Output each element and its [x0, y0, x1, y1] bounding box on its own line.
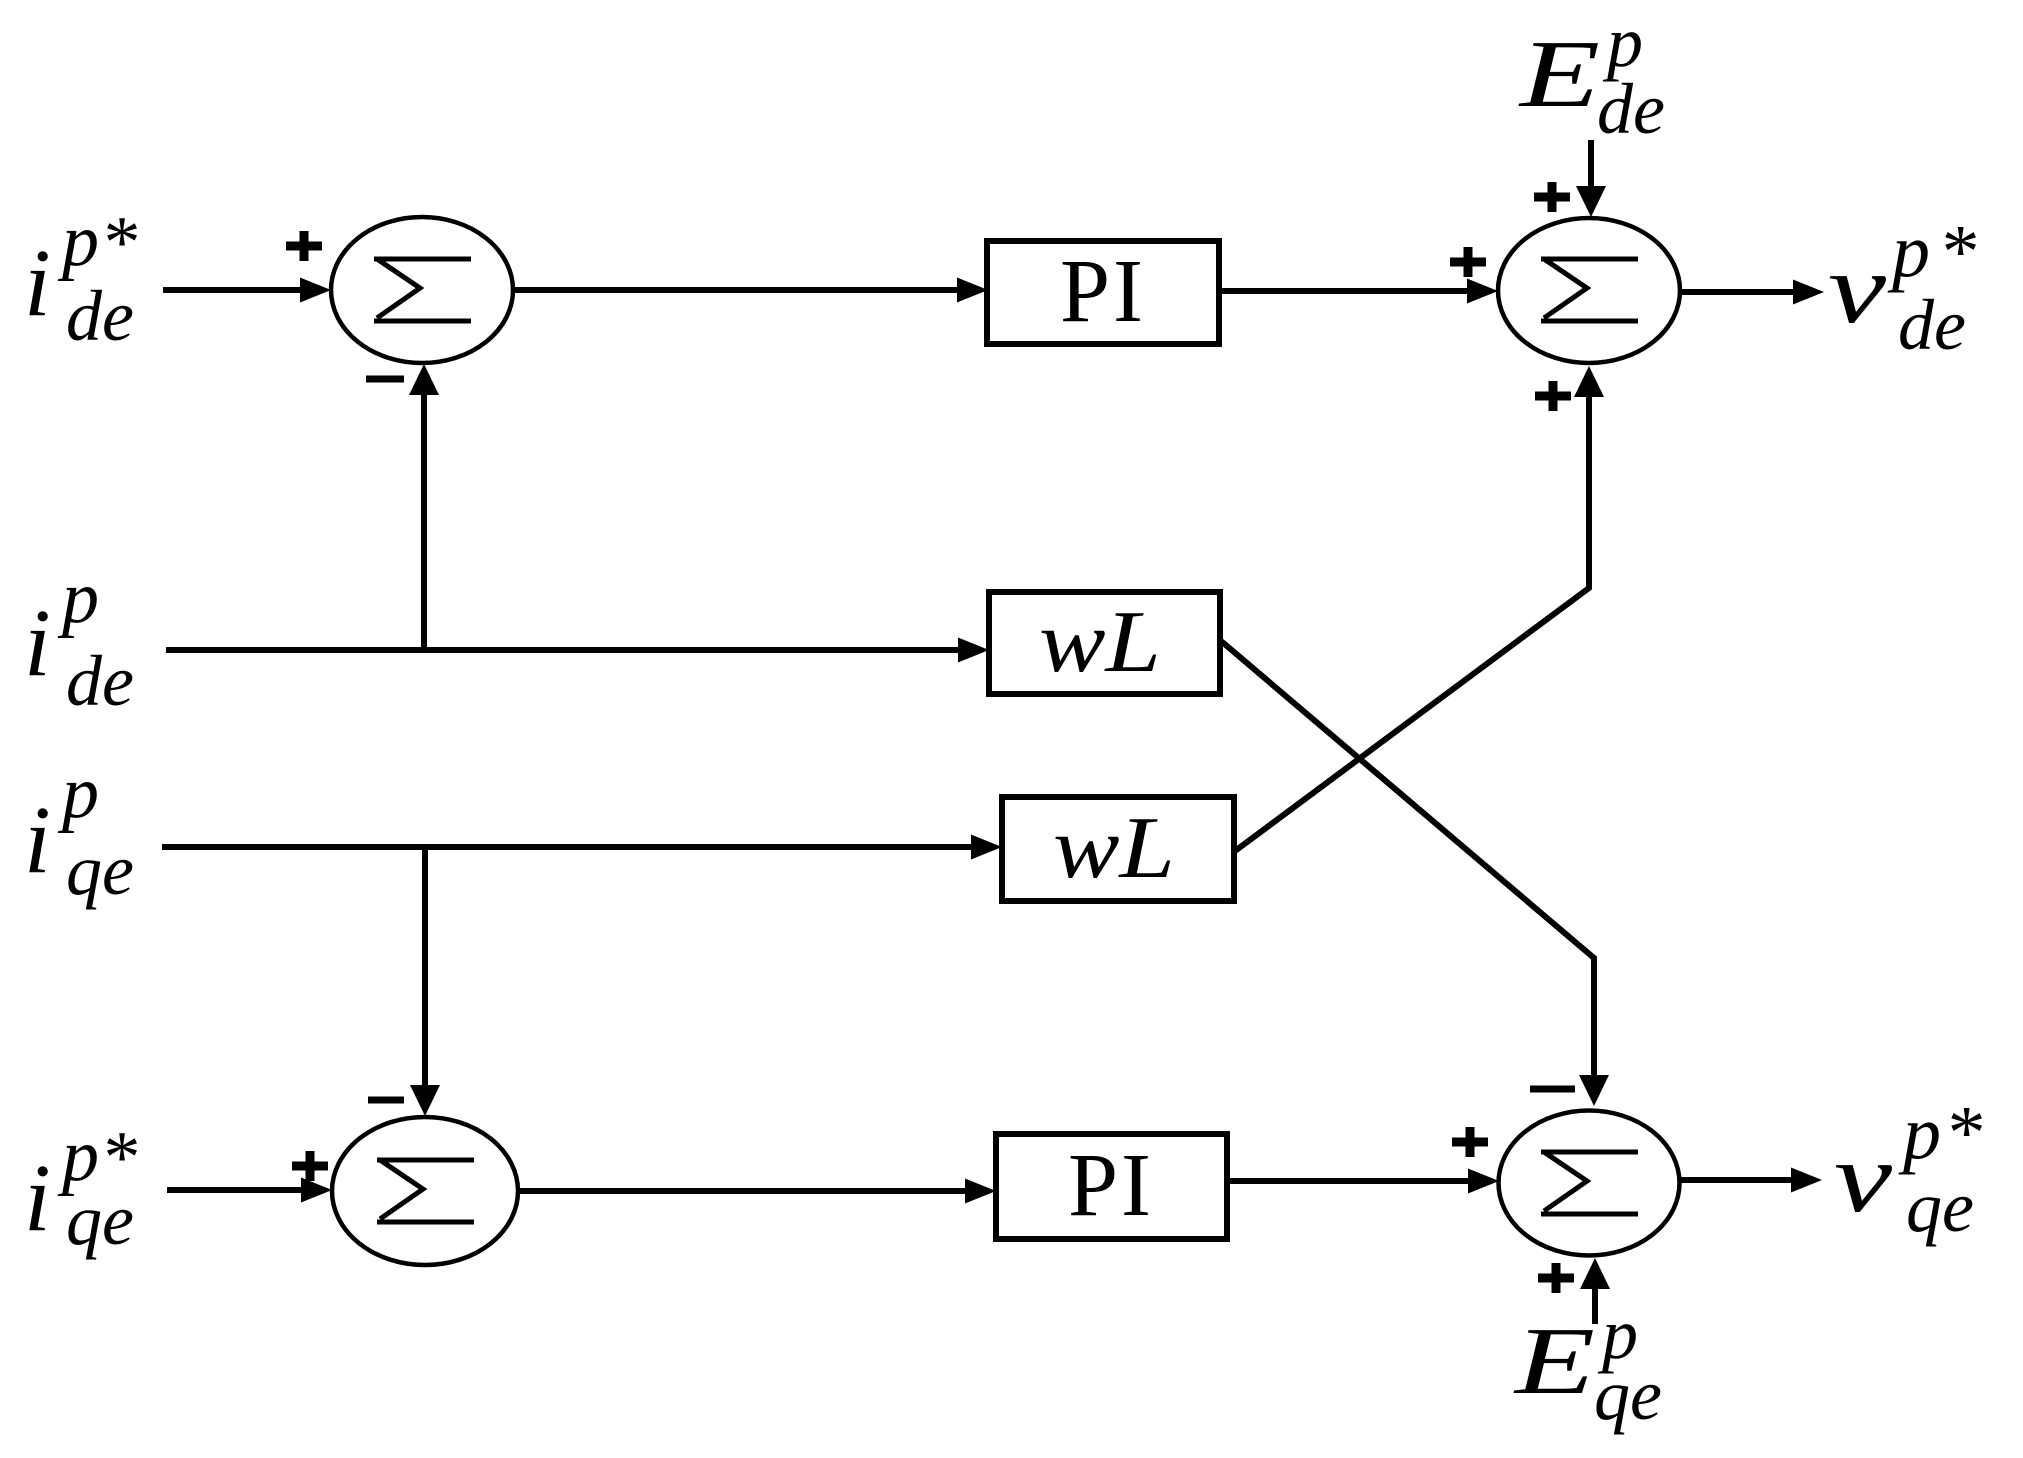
- wire diagonal wL2 to S2 (cross-coupling): [1235, 397, 1589, 851]
- svg-text:v: v: [1828, 233, 1887, 344]
- svg-text:*: *: [100, 202, 137, 284]
- svg-text:p: p: [1887, 209, 1930, 293]
- label i_de (measured d-axis current): [24, 557, 134, 721]
- svg-text:qe: qe: [1594, 1355, 1662, 1435]
- arrowhead into wL2: [971, 835, 1002, 860]
- arrowhead into PI2: [965, 1179, 996, 1204]
- svg-text:E: E: [1512, 1307, 1595, 1414]
- wire row1 input: [163, 287, 301, 293]
- wire diagonal wL1 to S4 (cross-coupling): [1221, 641, 1594, 1075]
- svg-text:*: *: [1944, 1091, 1982, 1175]
- arrowhead E_qe into S4 bottom: [1580, 1258, 1610, 1289]
- arrowhead into S3 top: [410, 1085, 440, 1116]
- gain block wL1: [989, 592, 1220, 694]
- label i_de* (input reference d-axis): [24, 200, 137, 356]
- plus sign at S3 left input: [292, 1151, 328, 1181]
- arrowhead E_de into S2 top: [1576, 186, 1606, 217]
- svg-text:v: v: [1834, 1122, 1893, 1233]
- wire S2 output: [1680, 289, 1793, 295]
- wire branch down from row3 to S3: [422, 847, 428, 1085]
- wire E_de down into S2: [1588, 140, 1594, 186]
- svg-text:de: de: [66, 641, 134, 721]
- arrowhead into S1 bottom: [409, 364, 439, 395]
- arrowhead row1 input: [300, 278, 331, 303]
- gain block wL2: [1002, 797, 1234, 901]
- plus sign at S2 top input: [1534, 182, 1570, 212]
- svg-text:de: de: [1597, 69, 1665, 149]
- plus sign at S2 bottom input: [1535, 381, 1571, 411]
- plus sign at S4 left input: [1452, 1127, 1488, 1157]
- wire PI2 to summing junction S4: [1227, 1178, 1468, 1184]
- svg-text:E: E: [1517, 20, 1600, 127]
- arrowhead into wL1: [958, 638, 989, 663]
- svg-text:wL: wL: [1053, 800, 1175, 897]
- plus sign at S4 bottom input: [1538, 1263, 1574, 1293]
- svg-text:i: i: [24, 589, 51, 696]
- svg-text:qe: qe: [66, 830, 134, 910]
- svg-text:PI: PI: [1060, 242, 1146, 341]
- svg-text:i: i: [24, 229, 51, 336]
- wire row3 i_qe to wL2: [162, 844, 971, 850]
- svg-text:qe: qe: [1906, 1167, 1974, 1247]
- svg-text:de: de: [66, 276, 134, 356]
- svg-text:qe: qe: [66, 1180, 134, 1260]
- wire branch up from row2 to S1: [421, 395, 427, 650]
- arrowhead S2 output: [1793, 280, 1824, 305]
- arrowhead row4 input into S3: [301, 1178, 332, 1203]
- svg-text:p: p: [57, 557, 99, 639]
- svg-text:p: p: [57, 752, 99, 834]
- svg-text:i: i: [24, 1144, 51, 1251]
- label v_de* (output d-axis voltage reference): [1828, 209, 1976, 365]
- label v_qe* (output q-axis voltage reference): [1834, 1091, 1982, 1247]
- arrowhead into S2 bottom: [1574, 366, 1604, 397]
- minus sign at S4 top input: [1530, 1086, 1575, 1093]
- arrowhead into PI1: [957, 278, 988, 303]
- arrowhead into S4: [1468, 1169, 1499, 1194]
- arrowhead S4 output: [1791, 1168, 1822, 1193]
- label E_qe (feed-forward voltage q-axis): [1512, 1294, 1662, 1435]
- plus sign at summing junction S1 left input: [286, 231, 322, 261]
- svg-text:i: i: [24, 786, 51, 893]
- svg-text:p: p: [57, 200, 99, 282]
- wire PI1 to summing junction S2: [1219, 288, 1467, 294]
- svg-text:p: p: [1898, 1091, 1941, 1175]
- arrowhead into S4 top: [1579, 1075, 1609, 1106]
- PI block PI1: [987, 241, 1219, 344]
- svg-text:de: de: [1898, 285, 1966, 365]
- summing junction S3: [332, 1117, 518, 1265]
- svg-text:*: *: [1938, 210, 1976, 294]
- svg-text:PI: PI: [1068, 1136, 1154, 1235]
- summing junction S4: [1499, 1111, 1680, 1256]
- wire row2 i_de to wL1: [166, 647, 958, 653]
- label i_qe (measured q-axis current): [24, 752, 134, 910]
- minus sign at S3 top input: [368, 1097, 404, 1104]
- arrowhead into S2: [1467, 279, 1498, 304]
- label E_de (feed-forward voltage d-axis): [1517, 2, 1665, 149]
- minus sign at summing junction S1 bottom input: [366, 376, 404, 383]
- label i_qe* (input reference q-axis): [24, 1115, 137, 1260]
- wire E_qe up into S4: [1592, 1289, 1598, 1324]
- svg-text:wL: wL: [1039, 594, 1161, 691]
- wire S4 output: [1680, 1177, 1791, 1183]
- plus sign at S2 left input: [1450, 247, 1486, 277]
- summing junction S1: [331, 217, 513, 363]
- wire S1 to PI1: [513, 287, 957, 293]
- wire row4 input: [167, 1187, 301, 1193]
- PI block PI2: [996, 1134, 1227, 1239]
- summing junction S2: [1498, 218, 1680, 363]
- wire S3 to PI2: [518, 1188, 965, 1194]
